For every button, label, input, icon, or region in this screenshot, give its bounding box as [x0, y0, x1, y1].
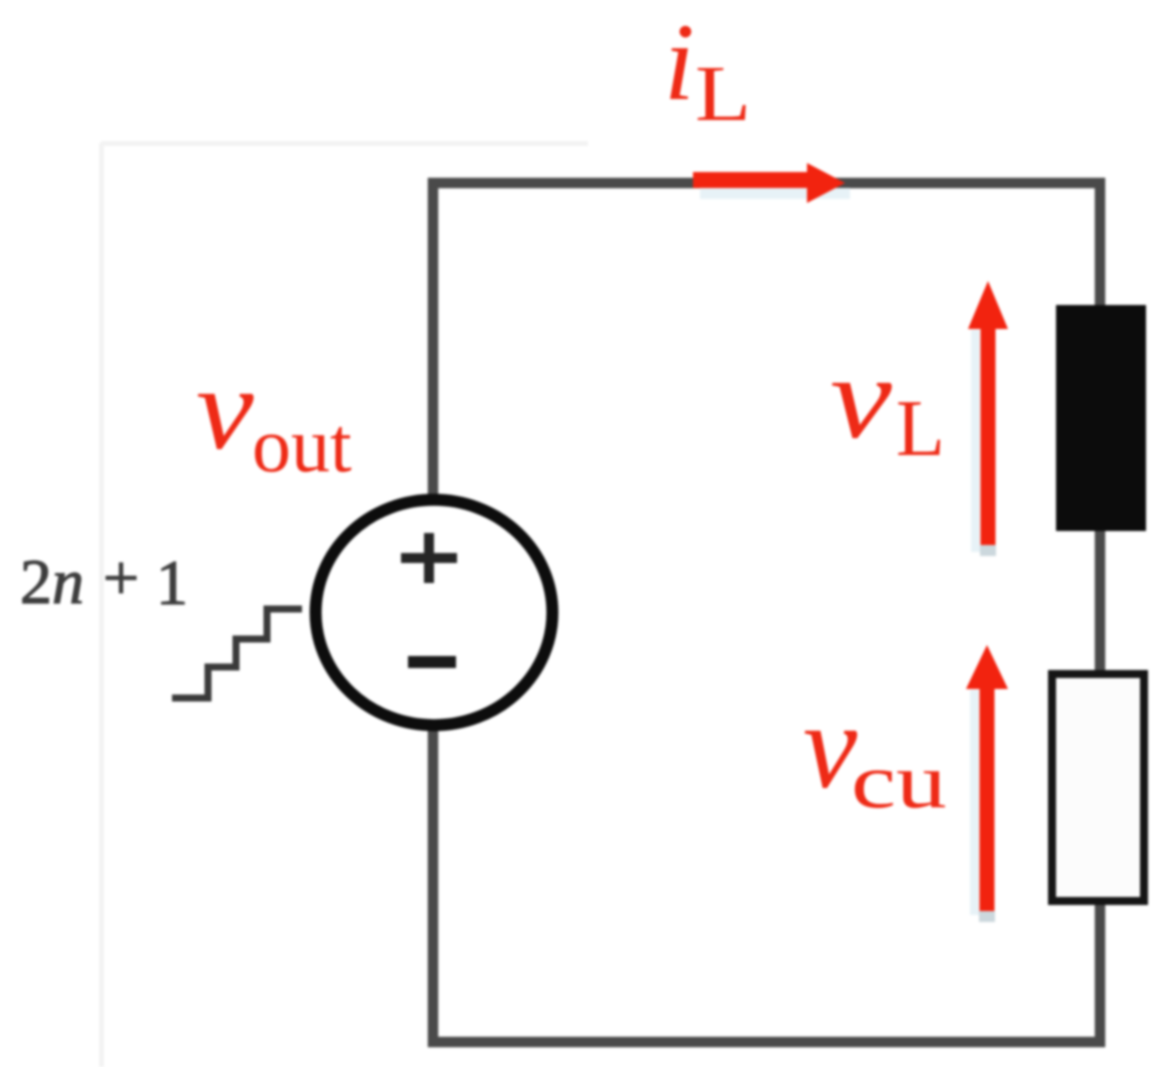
label v_cu: [803, 679, 947, 824]
wire loop: [433, 183, 1100, 1042]
label i_L: [664, 1, 751, 138]
voltage arrow vcu: [966, 645, 1008, 911]
staircase input waveform: [172, 609, 302, 698]
svg-text:v: v: [803, 679, 858, 814]
svg-text:i: i: [664, 1, 695, 123]
source circle: [316, 500, 553, 725]
svg-text:L: L: [695, 49, 751, 138]
svg-text:v: v: [830, 332, 893, 463]
current arrow iL: [693, 163, 845, 203]
voltage arrow vL: [968, 281, 1008, 545]
current arrow iL cyan halo: [700, 188, 850, 199]
svg-text:1: 1: [156, 547, 188, 618]
svg-text:v: v: [196, 342, 255, 473]
voltage source V1: [316, 500, 553, 725]
minus sign: [408, 656, 456, 668]
svg-text:out: out: [252, 401, 352, 488]
svg-text:+: +: [103, 542, 139, 613]
label v_out: [196, 342, 352, 488]
voltage arrow vcu cyan halo: [970, 690, 979, 915]
voltage arrow vL end smudge: [980, 545, 996, 556]
svg-text:cu: cu: [851, 737, 947, 824]
label 2n + 1: [20, 542, 188, 618]
inductor (black box): [1056, 305, 1146, 531]
voltage arrow vcu end smudge: [979, 911, 995, 922]
svg-text:2n: 2n: [20, 546, 84, 617]
voltage arrow vL cyan halo: [971, 330, 980, 552]
svg-text:L: L: [896, 385, 945, 473]
plus sign: [401, 533, 457, 583]
label v_L: [830, 332, 945, 473]
resistor v_cu (white box): [1052, 674, 1144, 901]
